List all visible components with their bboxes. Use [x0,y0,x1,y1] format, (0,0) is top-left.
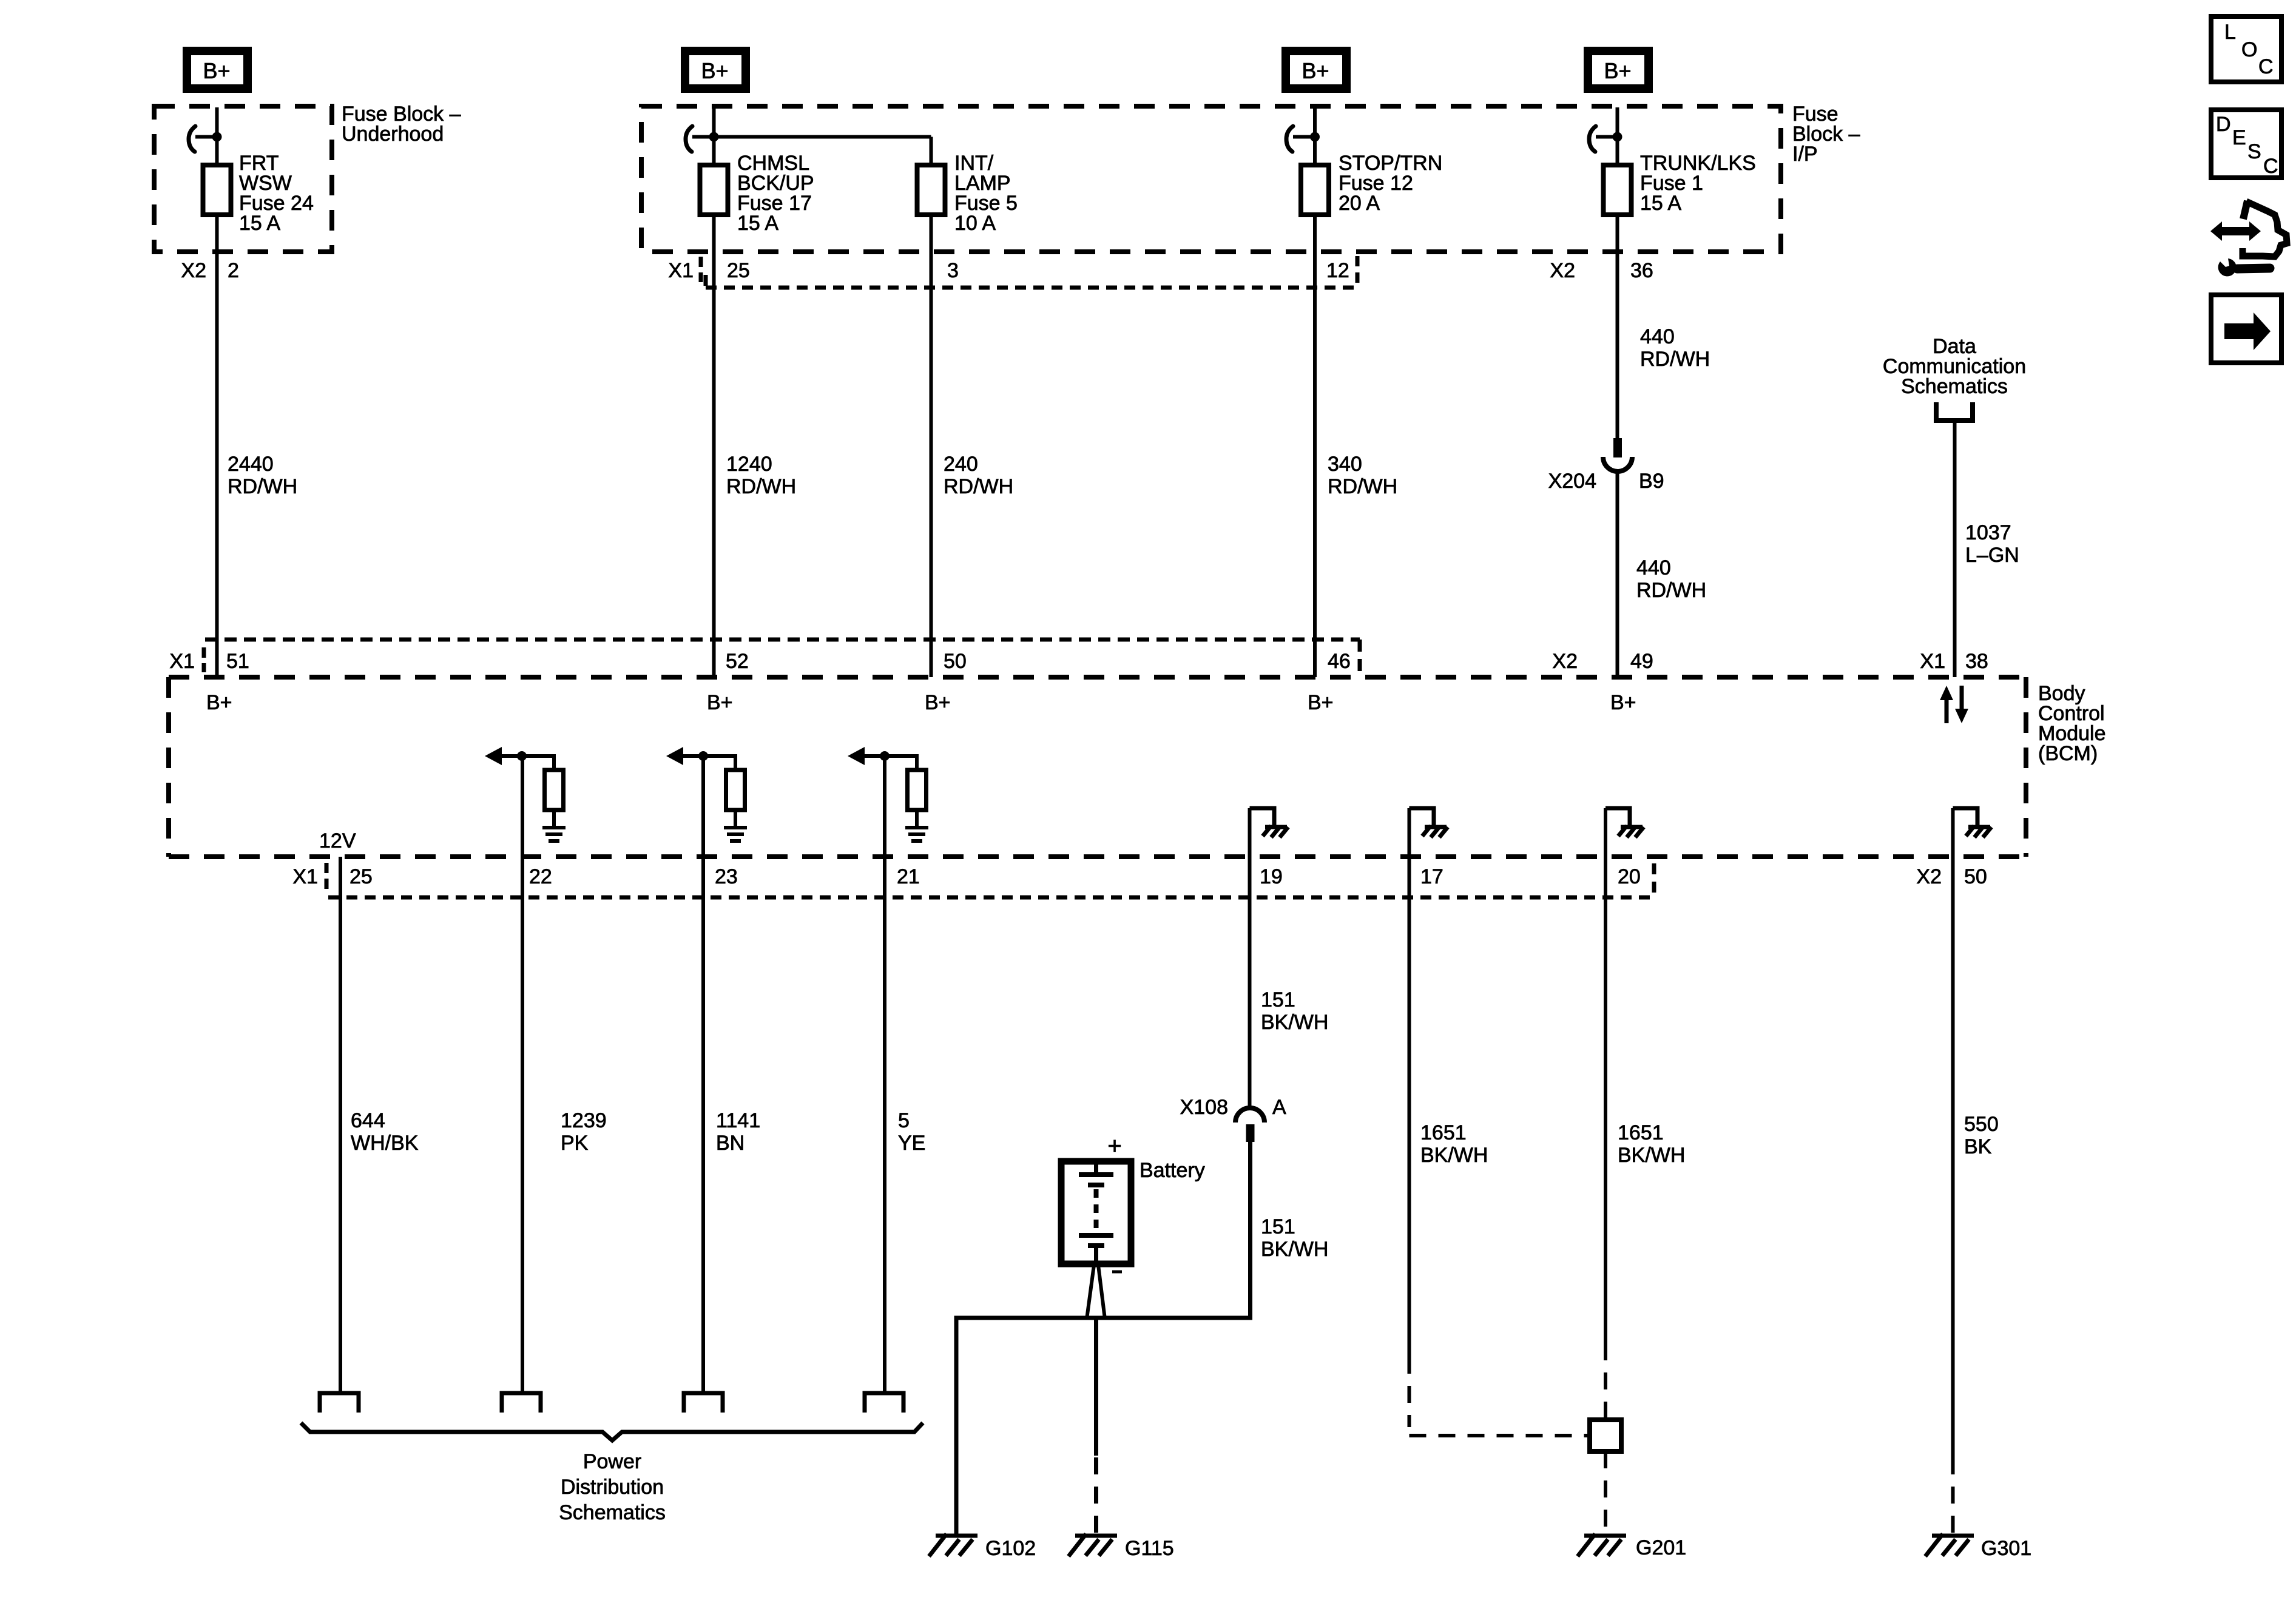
svg-text:38: 38 [1965,650,1988,673]
svg-text:12: 12 [1326,259,1349,282]
svg-text:X1: X1 [292,865,318,888]
svg-text:B+: B+ [1610,691,1636,714]
svg-text:X2: X2 [181,259,206,282]
svg-text:BK/WH: BK/WH [1618,1144,1685,1167]
svg-text:3: 3 [947,259,959,282]
svg-text:Underhood: Underhood [342,123,444,146]
svg-text:51: 51 [226,650,249,673]
svg-text:G301: G301 [1981,1537,2031,1560]
svg-text:1651: 1651 [1420,1121,1467,1144]
svg-text:RD/WH: RD/WH [1640,348,1710,371]
svg-text:X2: X2 [1916,865,1942,888]
svg-text:L–GN: L–GN [1965,544,2019,567]
svg-text:RD/WH: RD/WH [1328,475,1397,498]
svg-text:50: 50 [1964,865,1987,888]
svg-text:YE: YE [898,1132,925,1155]
svg-text:2: 2 [228,259,239,282]
svg-text:15 A: 15 A [1640,192,1681,215]
svg-text:644: 644 [351,1109,385,1132]
svg-text:B+: B+ [206,691,232,714]
svg-text:G115: G115 [1125,1537,1174,1560]
svg-text:52: 52 [726,650,749,673]
svg-text:1037: 1037 [1965,521,2011,544]
svg-text:15 A: 15 A [239,212,280,235]
svg-text:B+: B+ [203,58,230,83]
svg-text:RD/WH: RD/WH [726,475,796,498]
svg-text:I/P: I/P [1792,143,1818,166]
svg-text:X204: X204 [1548,470,1596,493]
svg-text:A: A [1272,1096,1286,1119]
svg-text:550: 550 [1964,1113,1999,1136]
svg-text:20 A: 20 A [1339,192,1380,215]
svg-text:19: 19 [1260,865,1283,888]
svg-text:BK/WH: BK/WH [1261,1238,1328,1261]
svg-text:Distribution: Distribution [561,1476,664,1499]
svg-text:10 A: 10 A [954,212,996,235]
svg-text:G102: G102 [985,1537,1036,1560]
svg-text:1240: 1240 [726,453,772,476]
svg-text:L: L [2224,21,2236,44]
svg-text:BK: BK [1964,1135,1992,1158]
svg-text:25: 25 [349,865,373,888]
svg-text:B+: B+ [701,58,728,83]
svg-text:B+: B+ [925,691,951,714]
svg-text:1651: 1651 [1618,1121,1664,1144]
svg-text:151: 151 [1261,988,1295,1011]
svg-text:E: E [2232,126,2246,149]
svg-text:Battery: Battery [1140,1159,1205,1182]
svg-text:340: 340 [1328,453,1362,476]
svg-text:5: 5 [898,1109,910,1132]
svg-text:S: S [2247,140,2261,163]
svg-text:RD/WH: RD/WH [228,475,297,498]
svg-text:+: + [1107,1133,1121,1160]
svg-text:RD/WH: RD/WH [944,475,1013,498]
svg-text:Schematics: Schematics [559,1501,666,1524]
svg-text:PK: PK [561,1132,589,1155]
svg-text:1141: 1141 [716,1109,760,1132]
svg-text:B+: B+ [1308,691,1334,714]
svg-text:B+: B+ [707,691,733,714]
svg-text:22: 22 [529,865,552,888]
svg-text:O: O [2241,38,2257,61]
svg-text:X108: X108 [1180,1096,1228,1119]
svg-text:X2: X2 [1550,259,1575,282]
svg-text:20: 20 [1618,865,1641,888]
svg-text:151: 151 [1261,1215,1295,1238]
svg-text:46: 46 [1328,650,1351,673]
svg-text:15 A: 15 A [737,212,778,235]
svg-text:(BCM): (BCM) [2038,742,2098,765]
svg-text:X2: X2 [1552,650,1578,673]
svg-text:X1: X1 [1920,650,1945,673]
svg-text:17: 17 [1420,865,1443,888]
svg-text:25: 25 [727,259,750,282]
svg-text:G201: G201 [1636,1536,1686,1559]
svg-text:23: 23 [715,865,738,888]
svg-text:BK/WH: BK/WH [1420,1144,1488,1167]
svg-text:C: C [2258,55,2274,78]
svg-text:49: 49 [1630,650,1653,673]
svg-text:B+: B+ [1604,58,1631,83]
svg-text:C: C [2263,155,2278,178]
svg-text:RD/WH: RD/WH [1636,579,1706,602]
svg-text:B9: B9 [1639,470,1664,493]
svg-text:D: D [2216,113,2231,136]
svg-text:WH/BK: WH/BK [351,1132,419,1155]
svg-text:12V: 12V [319,829,356,852]
svg-text:BN: BN [716,1132,745,1155]
svg-text:B+: B+ [1302,58,1329,83]
svg-text:X1: X1 [668,259,694,282]
svg-text:240: 240 [944,453,978,476]
svg-text:X1: X1 [169,650,195,673]
svg-text:36: 36 [1630,259,1653,282]
svg-text:1239: 1239 [561,1109,607,1132]
svg-text:2440: 2440 [228,453,274,476]
svg-text:BK/WH: BK/WH [1261,1011,1328,1034]
svg-text:Power: Power [583,1450,641,1473]
svg-text:Schematics: Schematics [1901,375,2008,398]
svg-text:21: 21 [897,865,920,888]
svg-text:440: 440 [1636,556,1671,579]
svg-text:50: 50 [944,650,967,673]
svg-text:440: 440 [1640,325,1675,348]
